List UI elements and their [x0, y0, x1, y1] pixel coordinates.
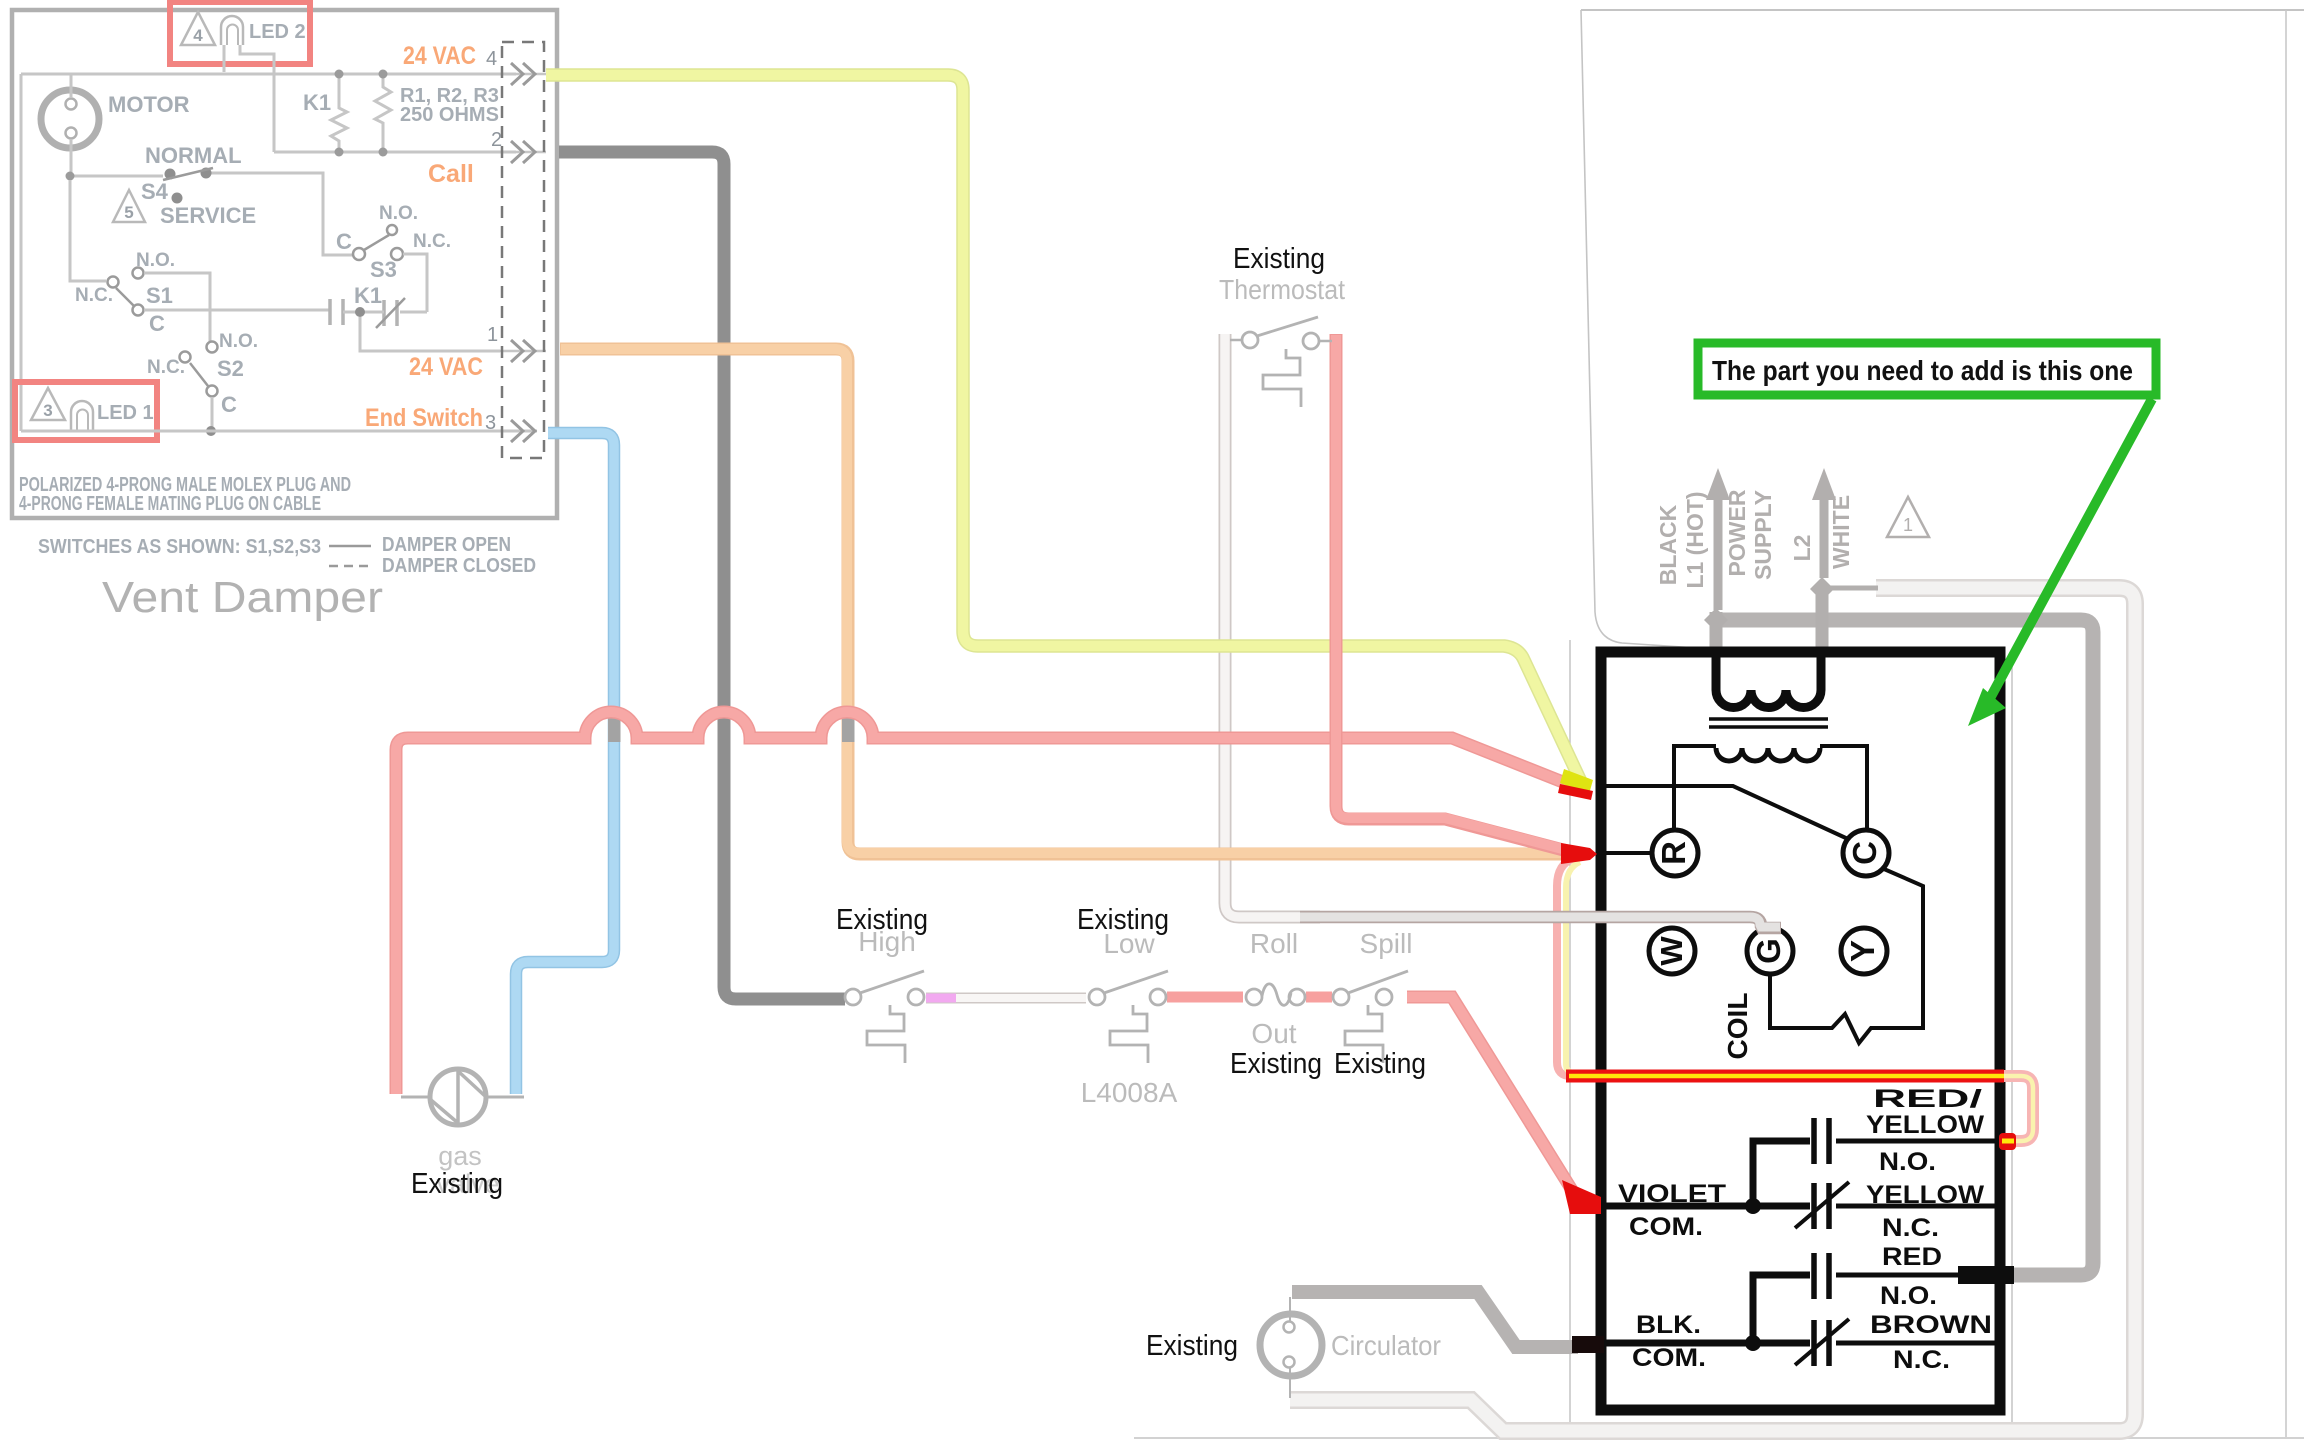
wire BLK COM bus [1601, 1340, 1810, 1347]
wire L1 arrow [1714, 500, 1723, 610]
svg-text:High: High [858, 926, 916, 957]
gas valve [401, 1096, 524, 1099]
svg-text:NORMAL: NORMAL [145, 143, 242, 168]
svg-text:S1: S1 [146, 283, 173, 308]
wire circulator hot lead [1292, 1292, 1578, 1347]
svg-text:Roll: Roll [1250, 928, 1298, 959]
wire spill pink to violet com [1407, 997, 1580, 1203]
svg-text:3: 3 [43, 401, 52, 420]
terminal Y [1841, 928, 1887, 974]
crossover gray segment on blue [608, 711, 621, 742]
svg-text:Circulator: Circulator [1331, 1330, 1441, 1361]
wire thermostat white drop [1225, 334, 1320, 917]
switch spill [1333, 989, 1349, 1005]
switch high limit [845, 989, 861, 1005]
LED 1 [71, 401, 93, 430]
pin 3 arrow [511, 420, 535, 442]
wire S1 C to K1 contact [144, 309, 330, 312]
svg-text:G: G [1750, 938, 1787, 964]
circulator [1289, 1297, 1291, 1398]
transformer secondary [1716, 748, 1820, 761]
svg-text:2: 2 [491, 129, 502, 151]
yellow wedge at hot entry [1560, 769, 1593, 794]
svg-text:3: 3 [485, 412, 496, 434]
svg-text:N.O.: N.O. [1879, 1148, 1936, 1176]
terminal G [1747, 928, 1793, 974]
LED2 highlight box [170, 2, 310, 64]
wire Call pin2 bus [274, 151, 516, 154]
svg-text:4: 4 [193, 26, 203, 45]
svg-text:End Switch: End Switch [365, 404, 483, 432]
svg-text:L1 (HOT): L1 (HOT) [1682, 491, 1708, 588]
wire S2 C down [211, 397, 214, 431]
svg-text:Existing: Existing [1146, 1330, 1238, 1362]
svg-text:5: 5 [124, 203, 133, 222]
svg-text:Existing: Existing [1233, 243, 1325, 275]
wire pink thermostat R [1336, 334, 1571, 852]
svg-text:W: W [1654, 936, 1689, 966]
wire yellow 24VAC pin4 [546, 75, 1584, 788]
wire L2 arrow [1820, 500, 1829, 578]
transformer primary [1716, 652, 1821, 708]
wire red yellow loop outside wall [2004, 1076, 2033, 1141]
wire pink gas valve main with hops [396, 712, 1588, 1094]
wire L1 hot gray to RED NO terminal [1717, 620, 2093, 1275]
switch S1 [70, 180, 106, 281]
svg-text:L4008A: L4008A [1081, 1077, 1178, 1108]
node junctions top bus [335, 70, 344, 79]
wire gray call pin2 [559, 152, 845, 999]
switch low limit [1089, 989, 1105, 1005]
svg-text:POWER: POWER [1724, 489, 1750, 576]
wire R terminal lead [1601, 851, 1652, 855]
svg-text:S2: S2 [217, 356, 244, 381]
svg-text:K1: K1 [303, 90, 331, 115]
svg-text:Existing: Existing [1334, 1048, 1426, 1080]
wire red yellow horizontal [1566, 1070, 2004, 1083]
svg-text:C: C [221, 392, 237, 417]
relay coil K1 [331, 74, 347, 152]
resistor R1 R2 R3 250 OHMS [375, 74, 391, 152]
svg-text:COM.: COM. [1629, 1213, 1703, 1241]
svg-text:LED 1: LED 1 [97, 402, 154, 424]
node L1 junction [1704, 608, 1728, 632]
contact RED/YELLOW N.O. [1814, 1118, 1829, 1164]
wire secondary left lead to R [1674, 746, 1716, 830]
svg-text:The part you need to add is th: The part you need to add is this one [1712, 355, 2133, 386]
wire orange 24VAC pin1 [560, 349, 1566, 854]
wire K1 to pin1 [360, 317, 500, 351]
BLK COM stub through wall [1572, 1336, 1604, 1353]
svg-text:BROWN: BROWN [1870, 1311, 1992, 1339]
triangle 3 [31, 388, 65, 420]
svg-text:N.O.: N.O. [1880, 1282, 1937, 1310]
svg-text:SWITCHES AS SHOWN: S1,S2,S3: SWITCHES AS SHOWN: S1,S2,S3 [38, 536, 321, 558]
wire motor bottom lead [70, 139, 73, 176]
svg-text:Out: Out [1251, 1018, 1296, 1049]
pin 1 arrow [500, 350, 546, 353]
wire coil circuit [1770, 869, 1923, 1043]
svg-text:N.O.: N.O. [379, 203, 418, 224]
wire L2 vertical into relay [1816, 586, 1829, 650]
svg-text:C: C [336, 229, 352, 254]
transformer core [1709, 719, 1828, 727]
wire top 24VAC pin4 bus [21, 73, 516, 76]
terminal C [1843, 830, 1889, 876]
wire pink rollout-spill link [1306, 992, 1332, 1003]
red tip violet com [1562, 1180, 1601, 1214]
svg-text:Low: Low [1103, 928, 1155, 959]
wire blue end switch pin3 [516, 433, 614, 1094]
RED NO stub through wall [1958, 1266, 2014, 1284]
svg-text:N.C.: N.C. [1893, 1346, 1950, 1374]
LED1 highlight box [15, 382, 157, 440]
svg-text:24 VAC: 24 VAC [409, 353, 483, 381]
aquastat relay case R8182 [1601, 652, 2000, 1410]
svg-text:gas: gas [438, 1141, 482, 1171]
triangle 4 [181, 12, 215, 45]
wire S1 NO to S2 NO [144, 273, 210, 341]
wire 24V hot bus to C [1601, 786, 1848, 839]
svg-text:COIL: COIL [1722, 993, 1753, 1060]
svg-text:DAMPER OPEN: DAMPER OPEN [382, 534, 511, 556]
svg-text:RED: RED [1882, 1243, 1942, 1271]
pin 4 arrow [500, 73, 546, 76]
wire L1 vertical into relay [1710, 612, 1723, 650]
red wedge at hot entry [1558, 784, 1593, 800]
svg-text:DAMPER CLOSED: DAMPER CLOSED [382, 555, 536, 577]
svg-text:Y: Y [1844, 940, 1881, 962]
svg-text:Spill: Spill [1360, 928, 1413, 959]
wire L2 junction link [1824, 586, 1878, 591]
switch thermostat [1242, 332, 1258, 348]
svg-text:4-PRONG FEMALE MATING PLUG ON: 4-PRONG FEMALE MATING PLUG ON CABLE [19, 493, 321, 515]
svg-text:BLACK: BLACK [1655, 504, 1681, 585]
red tip at R [1561, 843, 1597, 864]
svg-text:1: 1 [1903, 515, 1913, 535]
vent damper enclosure box [12, 10, 557, 518]
crossover gray segment on orange [842, 711, 855, 742]
svg-text:C: C [1846, 841, 1883, 865]
wire LED2 leads [224, 45, 274, 152]
node L2 junction [1810, 577, 1834, 601]
svg-text:Thermostat: Thermostat [1219, 274, 1345, 305]
svg-text:1: 1 [487, 324, 498, 346]
svg-text:N.C.: N.C. [147, 357, 185, 378]
svg-text:S3: S3 [370, 257, 397, 282]
svg-text:K1: K1 [354, 283, 382, 308]
svg-text:BLK.: BLK. [1636, 1311, 1701, 1339]
pin 2 arrow [500, 151, 546, 154]
svg-text:N.C.: N.C. [75, 285, 113, 306]
svg-text:Vent Damper: Vent Damper [102, 573, 383, 622]
svg-text:C: C [149, 311, 165, 336]
wire thermostat white horizontal into G [1300, 917, 1781, 928]
svg-text:24 VAC: 24 VAC [403, 42, 476, 70]
triangle 5 [113, 190, 145, 222]
wire secondary right lead to C [1820, 746, 1867, 830]
wire S3 NC to K1 [403, 254, 427, 312]
svg-text:Call: Call [428, 160, 474, 188]
svg-text:250 OHMS: 250 OHMS [400, 104, 499, 126]
switch roll out [1246, 989, 1262, 1005]
triangle 1 [1887, 497, 1929, 537]
svg-text:N.O.: N.O. [219, 331, 258, 352]
svg-text:SUPPLY: SUPPLY [1750, 490, 1776, 580]
wire End Switch pin3 bus [21, 430, 537, 433]
svg-text:Existing: Existing [411, 1168, 503, 1200]
svg-text:COM.: COM. [1632, 1344, 1706, 1372]
terminal W [1649, 928, 1695, 974]
svg-text:L2: L2 [1789, 535, 1815, 562]
LED 2 [221, 16, 243, 45]
svg-text:4: 4 [486, 48, 497, 70]
wire VIOLET COM bus [1601, 1203, 1810, 1210]
relay contact K1 [330, 299, 397, 326]
svg-text:Existing: Existing [1230, 1048, 1322, 1080]
wire magenta high-low link [926, 993, 1086, 1004]
molex connector dashed box [502, 42, 544, 458]
svg-text:WHITE: WHITE [1828, 495, 1854, 569]
wire pink low-rollout link [1167, 992, 1243, 1003]
contact BROWN N.C. [1814, 1320, 1829, 1366]
contact RED N.O. [1814, 1253, 1829, 1299]
svg-text:MOTOR: MOTOR [108, 92, 190, 117]
motor MOTOR [41, 90, 99, 148]
svg-text:LED 2: LED 2 [249, 21, 306, 43]
green callout box [1698, 343, 2156, 395]
svg-text:YELLOW: YELLOW [1866, 1181, 1984, 1209]
wire L2 white supply to circulator [1290, 588, 2135, 1431]
svg-text:YELLOW: YELLOW [1866, 1111, 1984, 1139]
wire motor top lead [70, 74, 73, 98]
svg-text:VIOLET: VIOLET [1618, 1180, 1726, 1208]
red cap at N.O. [1999, 1133, 2016, 1150]
contact YELLOW N.C. [1814, 1183, 1829, 1229]
svg-text:N.C.: N.C. [413, 231, 451, 252]
svg-text:RED/: RED/ [1873, 1085, 1982, 1113]
terminal R [1652, 830, 1698, 876]
wire red-yellow pair down from R [1557, 858, 1574, 1076]
svg-text:R: R [1655, 841, 1692, 865]
svg-text:SERVICE: SERVICE [160, 203, 256, 228]
svg-text:N.C.: N.C. [1882, 1214, 1939, 1242]
svg-text:S4: S4 [141, 179, 169, 204]
green arrow [1988, 399, 2152, 702]
wire left vertical [20, 74, 23, 431]
